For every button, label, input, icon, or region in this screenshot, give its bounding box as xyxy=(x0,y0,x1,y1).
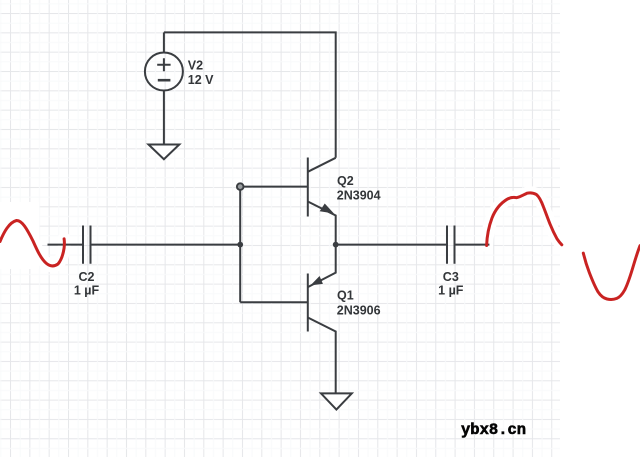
wire: top rail to Q2 collector xyxy=(164,32,336,157)
wire: base vertical rail xyxy=(239,187,241,303)
capacitor C3 xyxy=(447,226,455,264)
wire: Q2 base xyxy=(240,186,308,188)
voltage source V2 xyxy=(145,53,183,91)
transistor Q1 (2N3906 PNP) xyxy=(307,274,309,332)
svg-text:2N3904: 2N3904 xyxy=(337,189,381,203)
svg-text:12 V: 12 V xyxy=(188,73,214,87)
svg-text:1 µF: 1 µF xyxy=(438,283,464,297)
capacitor C2 xyxy=(83,226,91,264)
svg-text:Q2: Q2 xyxy=(337,174,354,188)
white halo under left sine xyxy=(0,220,64,265)
red input sine wave xyxy=(0,220,64,265)
white patch under left sine xyxy=(0,202,39,269)
svg-text:Q1: Q1 xyxy=(337,289,354,303)
wire: V2 bottom lead xyxy=(163,91,165,145)
svg-text:2N3906: 2N3906 xyxy=(337,304,381,318)
arrow Q2 emitter xyxy=(321,204,333,213)
white halo under right hump xyxy=(487,193,562,246)
red output trough xyxy=(583,246,640,300)
svg-text:C3: C3 xyxy=(443,270,459,284)
wire: V2 top lead xyxy=(163,32,165,52)
wire: output right segment xyxy=(455,244,490,246)
transistor Q2 (2N3904 NPN) xyxy=(307,158,309,217)
node: junction at base rail / mid wire xyxy=(237,242,243,248)
svg-text:C2: C2 xyxy=(79,270,95,284)
wire: Q1 base xyxy=(240,301,308,303)
ground (V2) xyxy=(149,145,180,160)
red output hump xyxy=(487,193,562,246)
wire: output junction to C3 xyxy=(336,244,447,246)
svg-text:V2: V2 xyxy=(188,59,203,73)
svg-text:1 µF: 1 µF xyxy=(74,283,100,297)
arrow Q1 emitter xyxy=(312,277,322,285)
svg-text:ybx8.cn: ybx8.cn xyxy=(461,421,526,439)
node: output junction xyxy=(333,242,339,248)
wire: C2 to base-rail junction xyxy=(91,244,242,246)
node: open terminal at Q2/Q1 base rail top xyxy=(237,183,244,190)
ground (output stage) xyxy=(321,393,352,409)
wire: input left segment xyxy=(48,244,84,246)
